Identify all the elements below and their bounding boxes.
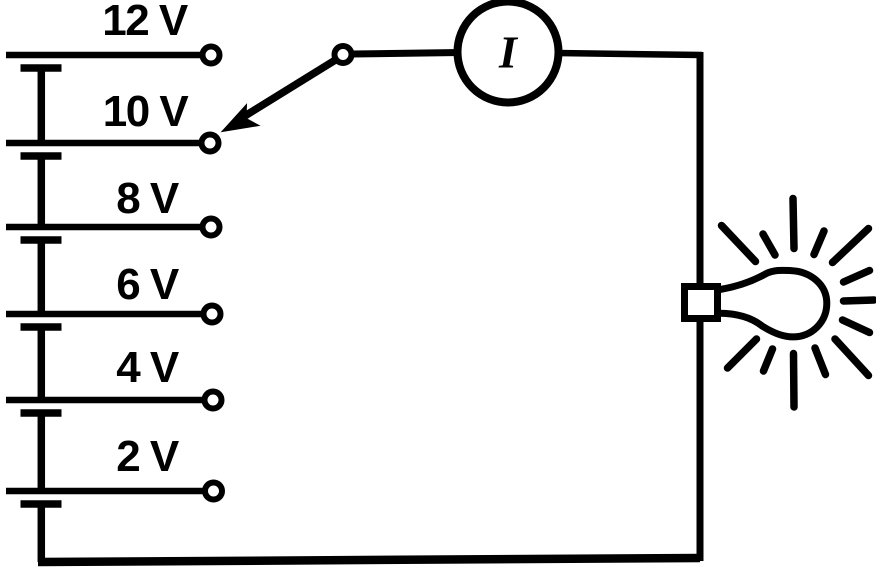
- svg-text:12 V: 12 V: [102, 0, 189, 45]
- wire bottom return: [38, 558, 700, 562]
- battery cell 1 short plate: [21, 64, 62, 72]
- wire ammeter to top-right corner: [556, 53, 702, 55]
- terminal node 4V: [205, 392, 222, 409]
- wire right vertical: [697, 52, 704, 561]
- ray upper-left short: [763, 234, 775, 255]
- switch S1 arrowhead: [222, 105, 259, 132]
- battery cell 1 long plate / 12V tap wire: [6, 52, 203, 59]
- ray right horizontal: [844, 300, 875, 301]
- terminal node 2V: [205, 483, 222, 500]
- lamp DS1 rays: [722, 199, 875, 408]
- ray upper-left long: [722, 226, 756, 262]
- ray top vertical: [793, 199, 794, 249]
- svg-text:10 V: 10 V: [103, 87, 190, 136]
- battery cell 2 long plate / 10V tap wire: [6, 140, 201, 147]
- lamp DS1 bulb glass: [720, 270, 827, 337]
- lamp DS1 base square: [685, 287, 718, 319]
- switch S1 pivot node: [335, 46, 352, 63]
- ray upper-right long: [833, 229, 869, 263]
- terminal node 8V: [203, 219, 220, 236]
- battery cell 5 long plate / 4V tap wire: [6, 397, 204, 404]
- svg-text:8 V: 8 V: [116, 174, 180, 223]
- terminal node 6V: [204, 306, 221, 323]
- battery cell 3 short plate: [21, 236, 62, 244]
- ray right down-diagonal: [843, 320, 870, 333]
- terminal node 12V: [203, 47, 220, 64]
- battery cell 6 short plate: [21, 500, 62, 508]
- ray lower-left long: [728, 339, 757, 368]
- ray lower-right short: [815, 348, 826, 375]
- battery B1 vertical connector segments: [38, 68, 46, 562]
- svg-text:4 V: 4 V: [116, 343, 180, 392]
- battery cell 4 long plate / 6V tap wire: [6, 311, 203, 318]
- battery cell 5 short plate: [21, 409, 62, 417]
- svg-text:I: I: [498, 27, 519, 78]
- ammeter U1 body: [458, 2, 559, 103]
- ray lower-left short: [764, 349, 773, 371]
- wire switch to ammeter: [352, 53, 460, 55]
- battery cell 6 long plate / 2V tap wire: [6, 488, 204, 495]
- ray right up-diagonal: [844, 271, 870, 283]
- battery cell 3 long plate / 8V tap wire: [6, 224, 202, 231]
- svg-text:2 V: 2 V: [116, 432, 180, 481]
- battery cell 2 short plate: [21, 152, 62, 160]
- battery cell 4 short plate: [21, 323, 62, 331]
- svg-text:6 V: 6 V: [116, 260, 180, 309]
- ray bottom vertical: [790, 354, 798, 408]
- ray upper-right short: [814, 231, 824, 255]
- ray lower-right long: [835, 339, 869, 376]
- switch S1 blade wire: [240, 59, 337, 119]
- terminal node 10V: [202, 135, 219, 152]
